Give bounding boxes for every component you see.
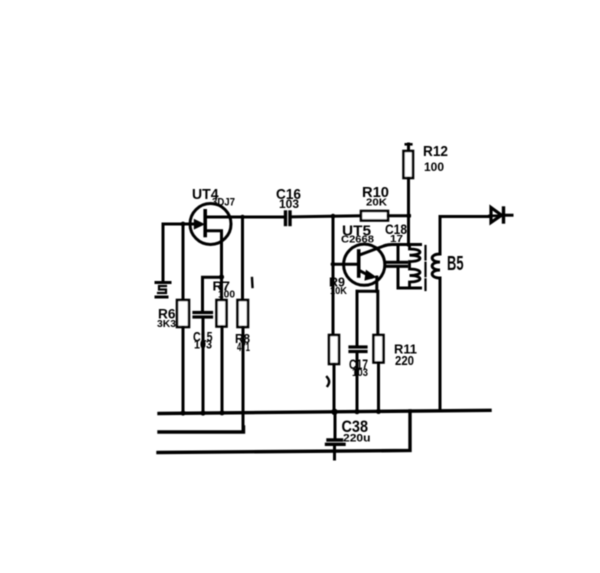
wire base	[333, 263, 358, 266]
svg-text:R12: R12	[423, 144, 448, 160]
diode	[491, 208, 512, 223]
ground rail 1	[159, 410, 490, 413]
node rail R9/C38	[331, 409, 337, 415]
wire R11 bottom	[377, 363, 380, 413]
wire R6 top	[182, 224, 185, 300]
svg-text:100: 100	[424, 160, 444, 174]
wire tank bottom	[398, 287, 421, 290]
wire base drop	[332, 216, 335, 335]
wire C15 bottom	[202, 319, 205, 414]
wire source jog	[203, 276, 222, 279]
svg-text:B5: B5	[447, 253, 464, 275]
transistor VT4	[190, 204, 231, 245]
wire R7 top	[220, 277, 223, 300]
wire drain to C16	[205, 216, 283, 219]
svg-text:103: 103	[352, 367, 368, 379]
capacitor C38	[327, 412, 345, 459]
capacitor C16	[286, 212, 291, 225]
resistor R11	[374, 335, 384, 363]
wire R9 bottom	[333, 364, 336, 413]
wire rail 2	[159, 427, 244, 432]
node gate/R6 junction	[181, 222, 186, 227]
wire left drop	[162, 224, 165, 280]
stray mark tick	[251, 278, 254, 287]
resistor R7	[217, 300, 227, 327]
transformer B5	[410, 245, 441, 291]
svg-text:20K: 20K	[366, 197, 387, 209]
wire gate	[163, 223, 195, 226]
wire C16 to R10	[292, 216, 362, 217]
node base junction	[331, 262, 336, 267]
transistor VT5	[344, 244, 385, 285]
svg-text:10K: 10K	[330, 285, 347, 297]
node rail C15	[200, 410, 205, 415]
capacitor C15	[194, 313, 212, 318]
wire through diode	[490, 215, 503, 218]
wire source	[205, 231, 221, 277]
svg-text:220: 220	[395, 354, 414, 368]
node rail R7	[219, 410, 224, 415]
svg-text:C2668: C2668	[341, 234, 374, 246]
node rail R11	[376, 409, 381, 414]
wire secondary top to diode	[440, 217, 490, 255]
node R12/main wire junction	[406, 213, 411, 218]
resistor R6	[177, 300, 189, 327]
wire R10 to R12	[388, 214, 410, 217]
capacitor (partial, left edge)	[156, 283, 170, 298]
wire rail 3	[158, 411, 410, 453]
node rail R6	[180, 410, 185, 415]
wire R11 top	[376, 291, 379, 335]
capacitor C18	[387, 245, 407, 289]
svg-text:3K3: 3K3	[157, 318, 176, 330]
wire R8 top	[241, 217, 244, 300]
wire emitter jog	[357, 290, 377, 293]
node source junction	[219, 274, 224, 279]
svg-text:103: 103	[279, 197, 299, 211]
svg-text:220u: 220u	[343, 433, 371, 445]
wire R6 bottom	[182, 327, 185, 413]
wire C17 bottom	[356, 353, 359, 412]
svg-text:3DJ7: 3DJ7	[212, 197, 235, 209]
wire C15 top	[201, 278, 204, 312]
wire C17 top	[356, 291, 359, 345]
wire secondary bottom	[439, 278, 442, 411]
resistor R10	[361, 211, 388, 221]
wire R8 bottom	[242, 327, 245, 432]
resistor R8	[238, 300, 249, 327]
resistor R9	[329, 335, 339, 364]
node rail C17	[354, 409, 359, 414]
stray mark parenthesis	[327, 377, 329, 386]
capacitor C17	[350, 347, 366, 352]
svg-text:100: 100	[218, 290, 235, 301]
node base junction top	[331, 214, 336, 219]
svg-text:17: 17	[390, 233, 403, 245]
wire collector tank top	[385, 245, 421, 246]
wire emitter	[375, 277, 378, 291]
node drain/R8 junction	[240, 215, 244, 219]
resistor R12	[404, 144, 414, 245]
wire R7 bottom	[221, 327, 224, 414]
